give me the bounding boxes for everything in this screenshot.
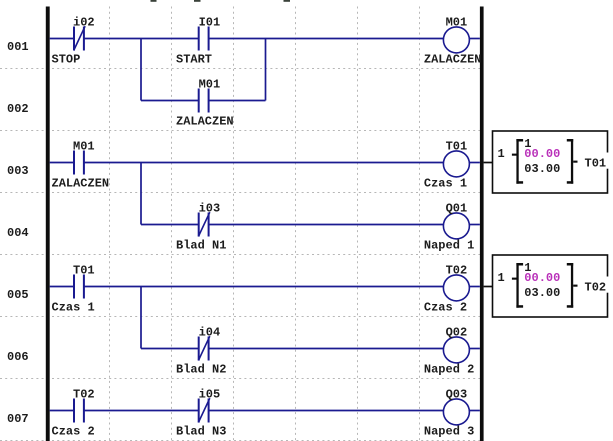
svg-text:002: 002: [7, 102, 29, 116]
svg-text:003: 003: [7, 164, 29, 178]
svg-text:Czas 1: Czas 1: [52, 301, 95, 315]
svg-text:T02: T02: [446, 264, 468, 278]
svg-text:i02: i02: [73, 16, 95, 30]
svg-text:i04: i04: [199, 326, 221, 340]
svg-text:T01: T01: [73, 264, 95, 278]
svg-text:Naped 2: Naped 2: [424, 363, 474, 377]
svg-text:START: START: [176, 53, 212, 67]
svg-text:ZALACZEN: ZALACZEN: [52, 177, 110, 191]
svg-text:Blad N2: Blad N2: [176, 363, 226, 377]
svg-text:Blad N3: Blad N3: [176, 425, 226, 439]
svg-text:1: 1: [498, 271, 505, 285]
svg-text:03.00: 03.00: [524, 162, 560, 176]
svg-text:007: 007: [7, 412, 29, 426]
svg-text:T02: T02: [585, 280, 607, 294]
svg-text:Q01: Q01: [446, 202, 468, 216]
svg-text:Blad N1: Blad N1: [176, 239, 226, 253]
svg-text:Q02: Q02: [446, 326, 468, 340]
svg-text:00.00: 00.00: [524, 147, 560, 161]
svg-text:STOP: STOP: [52, 53, 81, 67]
svg-text:001: 001: [7, 40, 29, 54]
svg-text:Q03: Q03: [446, 388, 468, 402]
svg-text:Czas 2: Czas 2: [424, 301, 467, 315]
svg-text:005: 005: [7, 288, 29, 302]
svg-text:03.00: 03.00: [524, 286, 560, 300]
svg-text:Czas 2: Czas 2: [52, 425, 95, 439]
svg-text:T02: T02: [73, 388, 95, 402]
svg-text:M01: M01: [199, 78, 221, 92]
svg-text:i03: i03: [199, 202, 221, 216]
svg-text:Naped 3: Naped 3: [424, 425, 474, 439]
svg-text:ZALACZEN: ZALACZEN: [176, 115, 234, 129]
svg-text:Czas 1: Czas 1: [424, 177, 467, 191]
svg-text:ZALACZEN: ZALACZEN: [424, 53, 482, 67]
svg-text:006: 006: [7, 350, 29, 364]
svg-text:1: 1: [498, 147, 505, 161]
svg-text:M01: M01: [73, 140, 95, 154]
svg-text:T01: T01: [446, 140, 468, 154]
svg-text:004: 004: [7, 226, 29, 240]
svg-text:T01: T01: [585, 156, 607, 170]
svg-text:00.00: 00.00: [524, 271, 560, 285]
svg-text:i05: i05: [199, 388, 221, 402]
svg-text:M01: M01: [446, 16, 468, 30]
svg-text:I01: I01: [199, 16, 221, 30]
svg-text:Naped 1: Naped 1: [424, 239, 474, 253]
